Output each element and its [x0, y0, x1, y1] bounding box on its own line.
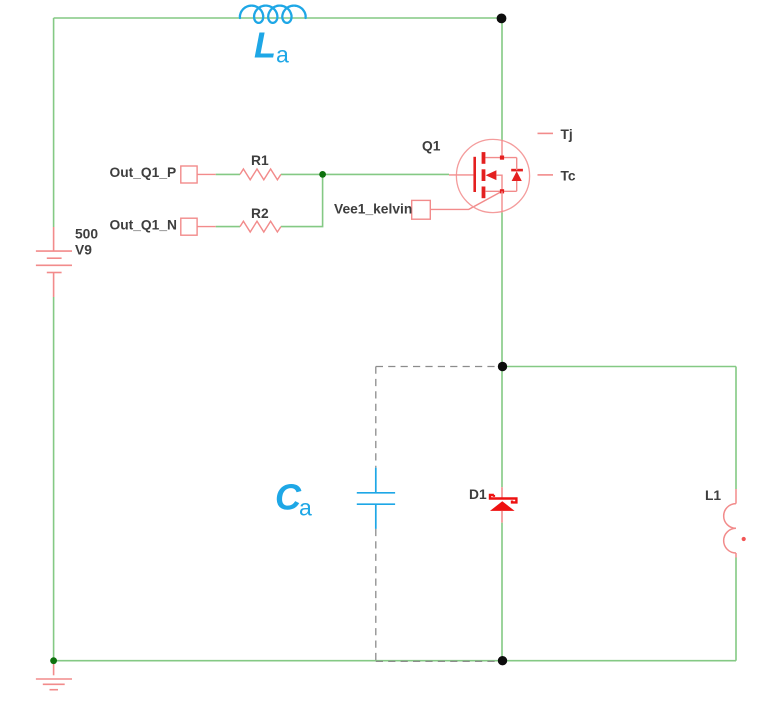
- svg-text:D1: D1: [469, 487, 487, 502]
- Q1 body diode triangle: [512, 171, 522, 181]
- diode D1: [490, 487, 516, 522]
- wire bottom horizontal: [54, 660, 736, 662]
- Q1 channel mid bar: [482, 169, 486, 181]
- D1 top lead: [501, 487, 503, 498]
- Q1 gate bar: [473, 157, 476, 192]
- inductor La: [240, 6, 306, 23]
- svg-text:L1: L1: [705, 488, 721, 503]
- wire Q1 drain from top node: [501, 18, 503, 140]
- node ground junction: [50, 657, 57, 664]
- D1 bottom lead: [501, 511, 503, 523]
- port Vee1_kelvin: [412, 200, 431, 219]
- svg-text:Tj: Tj: [561, 127, 573, 142]
- Q1 body diode bar: [511, 169, 523, 172]
- wire D1 to bottom node: [501, 523, 503, 661]
- node R1 gate junction: [319, 171, 326, 178]
- Q1 body diode leads: [516, 158, 518, 192]
- Q1 channel bottom bar: [482, 187, 486, 199]
- wire right vertical upper: [735, 367, 737, 490]
- port Out_Q1_P: [181, 166, 197, 183]
- wire right vertical lower: [735, 558, 737, 661]
- wire left vertical upper: [53, 18, 55, 227]
- wire Q1 source down to mid node: [501, 213, 503, 367]
- wire R1 input: [216, 173, 240, 175]
- Q1 source junction dot: [500, 189, 504, 193]
- svg-text:R2: R2: [251, 206, 269, 221]
- Q1 body link: [496, 175, 502, 191]
- Q1 source internal lead: [501, 191, 503, 212]
- svg-text:Q1: Q1: [422, 139, 441, 154]
- node top right: [497, 14, 507, 24]
- Q1 gate lead: [449, 174, 473, 176]
- svg-text:Vee1_kelvin: Vee1_kelvin: [334, 202, 412, 217]
- svg-text:a: a: [276, 42, 289, 68]
- dashed boundary box: [376, 367, 502, 662]
- voltage source V9: [36, 227, 72, 297]
- svg-text:V9: V9: [75, 243, 92, 258]
- L1 polarity dot: [742, 537, 746, 541]
- svg-text:Out_Q1_N: Out_Q1_N: [110, 217, 178, 232]
- Q1 channel top bar: [482, 152, 486, 164]
- D1 cathode bar with hooks: [490, 495, 516, 503]
- wire R1 output: [281, 173, 323, 175]
- Q1 body circle: [456, 139, 529, 212]
- Q1 pin Tj: [538, 132, 554, 134]
- Q1 drain rail: [485, 157, 516, 159]
- svg-text:C: C: [275, 477, 302, 518]
- wire top horizontal: [54, 17, 499, 19]
- resistor R1: [240, 169, 281, 180]
- Q1 drain junction dot: [500, 156, 504, 160]
- inductor L1: [724, 489, 736, 558]
- svg-text:L: L: [254, 25, 276, 66]
- Q1 source arrow: [486, 170, 497, 180]
- svg-text:a: a: [299, 495, 312, 521]
- Q1 drain internal lead: [501, 140, 503, 158]
- ground: [36, 661, 72, 690]
- mosfet Q1: [449, 127, 576, 213]
- wire R2 output to junction: [281, 174, 323, 226]
- Q1 source rail: [485, 190, 516, 192]
- node bottom: [498, 656, 507, 665]
- node mid right: [498, 362, 507, 371]
- svg-text:500: 500: [75, 227, 98, 242]
- D1 anode triangle: [490, 501, 515, 511]
- wire left vertical lower: [53, 297, 55, 661]
- wire mid node down to D1: [501, 367, 503, 488]
- Q1 pin Tc: [538, 174, 554, 176]
- svg-text:Tc: Tc: [561, 168, 576, 183]
- svg-text:Out_Q1_P: Out_Q1_P: [110, 165, 177, 180]
- wire mid horizontal node to right: [502, 366, 736, 368]
- wire R2 input: [216, 226, 240, 228]
- svg-text:R1: R1: [251, 153, 269, 168]
- capacitor Ca: [357, 468, 395, 529]
- port Out_Q1_N: [181, 218, 197, 235]
- resistor R2: [240, 221, 281, 232]
- wire gate from R junction to Q1: [323, 173, 449, 175]
